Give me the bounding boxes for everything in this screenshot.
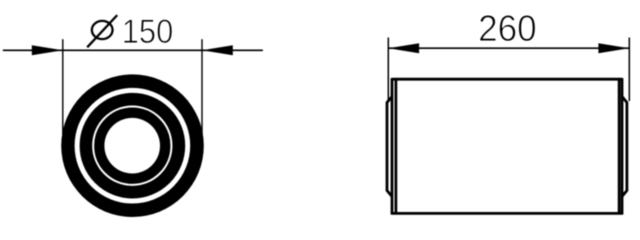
svg-text:150: 150 <box>122 13 174 51</box>
svg-text:260: 260 <box>478 8 537 49</box>
